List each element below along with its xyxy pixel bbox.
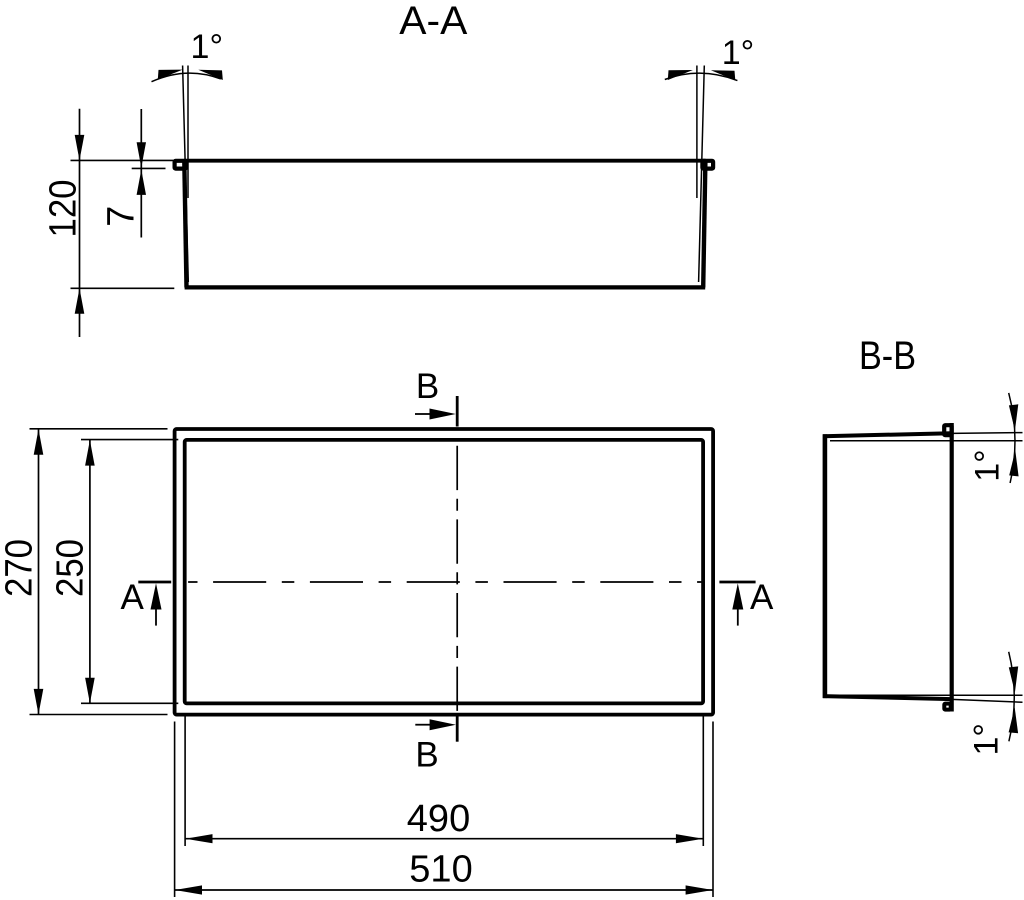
angle arrowhead right-arc pointing right [668,70,693,80]
B-B box left (back) edge [823,434,828,698]
section cut thick segment top (B) [456,396,459,427]
dimension text 270 [0,539,41,597]
dimension line 120 [79,109,81,337]
svg-text:A: A [750,578,774,617]
section arrow B top (right) [415,413,430,415]
angle arc left (A-A) [152,73,221,82]
dimension line 490 [185,838,703,840]
arrowhead 490 right [676,834,703,843]
section label A left [121,578,145,617]
extension line bottom (120 dim) [71,287,175,289]
B-B reference line horizontal top [830,440,1023,442]
svg-text:1°: 1° [722,34,755,72]
svg-text:B: B [415,735,438,774]
svg-text:1°: 1° [191,28,224,66]
section arrow B bottom (right) [415,724,430,726]
arrowhead 510 left [175,885,202,894]
B-B box bottom edge [823,696,952,699]
B-B box top edge [823,433,952,436]
svg-text:270: 270 [0,539,41,597]
construction line vertical left (A-A) [187,66,189,199]
arrowhead 490 left [185,834,212,843]
arrowhead 250 top [85,440,95,466]
A-A right flange [702,161,713,169]
extension line 490 right [702,717,704,847]
svg-text:7: 7 [100,206,142,227]
arrowhead 510 right [686,885,713,894]
svg-text:A-A: A-A [399,0,468,43]
centerline vertical (section B-B) [456,446,458,711]
section arrow A right (up) [737,592,739,626]
svg-text:120: 120 [43,180,85,238]
svg-text:510: 510 [409,849,472,891]
extension line flange bottom (7 dim) [132,167,166,169]
extension line top (120/7 dims) [71,159,174,161]
A-A right wall [703,161,705,288]
dimension text 250 [50,539,92,597]
extension line 250 bottom [81,702,178,704]
B-B top flange [944,425,951,435]
B-B label 1deg top [969,449,1007,482]
arrowhead 7 top (down) [137,142,146,167]
B-B box right (rim) edge [950,423,954,712]
section cut thick segment left (A) [138,581,171,584]
extension line 270 bottom [30,714,168,716]
extension line 510 left [174,722,176,898]
svg-text:490: 490 [407,798,470,840]
extension line 510 right [712,722,714,898]
B-B angle arrowhead top (up) [1009,451,1018,477]
angle arrowhead left-arc pointing right [158,70,183,80]
dimension line 270 [38,429,40,715]
centerline horizontal (section A-A) [188,581,702,583]
svg-text:B-B: B-B [859,334,916,378]
construction line tilted left (A-A draft angle) [183,66,189,283]
section cut thick segment bottom (B) [456,716,459,742]
section cut thick segment right (A) [719,581,755,584]
dimension line 510 [175,889,713,891]
angle arc right (A-A) [665,73,738,80]
arrowhead 120 bottom (up) [75,288,85,314]
section label B bottom [415,735,438,774]
extension line 270 top [30,428,168,430]
A-A box top rim line [184,159,706,163]
dimension line 250 [89,440,91,703]
front view inner rectangle (490 x 250) [185,440,703,704]
B-B angle arrowhead bottom (down) [1009,666,1018,692]
section arrow A left (up) [155,592,157,626]
extension line 250 top [81,439,178,441]
section label B top [416,367,439,406]
angle arrowhead right-arc pointing left [711,70,735,80]
B-B tilted wall line top [952,432,1023,435]
label 1deg right (A-A) [722,34,755,72]
B-B angle arc top [1009,393,1015,483]
A-A left flange [175,161,187,169]
B-B tilted wall line bottom [952,699,1023,702]
svg-text:250: 250 [50,539,92,597]
B-B angle arrowhead top (down) [1009,404,1018,430]
dimension text 490 [407,798,470,840]
dimension text 7 [100,206,142,227]
A-A box bottom line [185,285,706,289]
arrowhead 7 bottom (up) [137,170,146,195]
A-A left wall [184,161,186,288]
section label A right [750,578,774,617]
arrowhead 120 top (down) [75,135,85,161]
B-B bottom flange [944,704,950,710]
svg-text:B: B [416,367,439,406]
dimension text 120 [43,180,85,238]
construction line tilted right (A-A draft angle) [699,66,705,283]
title A-A [399,0,468,43]
title B-B [859,334,916,378]
dimension text 510 [409,849,472,891]
arrowhead 270 bottom [34,689,44,715]
svg-text:A: A [121,578,145,617]
angle arrowhead left-arc pointing left [198,70,223,80]
arrowhead 250 bottom [85,678,95,704]
B-B label 1deg bottom [967,723,1005,756]
extension line 490 left [184,717,186,847]
label 1deg left (A-A) [191,28,224,66]
dimension line 7 [140,109,142,238]
svg-text:1°: 1° [969,449,1007,482]
svg-text:1°: 1° [967,723,1005,756]
construction line vertical right (A-A) [696,66,698,199]
B-B angle arrowhead bottom (up) [1009,708,1019,734]
B-B angle arc bottom [1009,652,1015,742]
arrowhead 270 top [34,429,44,455]
B-B reference line horizontal bottom [830,694,1023,696]
front view outer rectangle (510 x 270) [175,429,714,715]
